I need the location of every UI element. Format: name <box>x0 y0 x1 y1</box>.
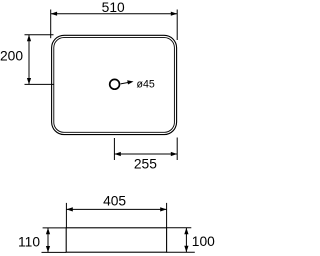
dimension line 200 <box>28 35 30 85</box>
svg-text:510: 510 <box>102 0 125 15</box>
extension line 110 bottom <box>42 251 67 253</box>
svg-text:255: 255 <box>134 156 157 171</box>
dimension line 100 <box>185 228 187 252</box>
drain hole circle <box>110 79 120 89</box>
svg-text:200: 200 <box>0 49 23 64</box>
extension line 110 top <box>43 227 67 229</box>
extension line 100 top <box>167 227 192 229</box>
arrowhead 510 left <box>51 12 57 16</box>
svg-text:ø45: ø45 <box>137 79 155 91</box>
extension line 100 bottom <box>167 251 195 253</box>
arrowhead 100 top <box>184 228 188 234</box>
arrowhead 510 right <box>171 12 177 16</box>
arrowhead 200 top <box>27 35 31 41</box>
extension line 200 bottom <box>25 83 55 85</box>
arrowhead 255 right <box>171 152 177 156</box>
arrowhead 200 bottom <box>27 78 31 84</box>
extension line 510 left <box>50 10 52 39</box>
drain leader arrowhead <box>127 80 133 84</box>
arrowhead 405 right <box>160 207 166 211</box>
basin outer outline (top view) <box>52 35 177 134</box>
arrowhead 110 bottom <box>46 246 50 252</box>
extension line 200 top <box>25 34 54 36</box>
basin body (side view) <box>66 228 166 252</box>
extension line 255 right <box>176 138 178 161</box>
dimension line 255 <box>114 153 177 155</box>
arrowhead 100 bottom <box>184 246 188 252</box>
arrowhead 405 left <box>66 207 72 211</box>
extension line 510 right <box>176 10 178 41</box>
arrowhead 110 top <box>46 228 50 234</box>
arrowhead 255 left <box>114 152 120 156</box>
svg-text:405: 405 <box>103 194 126 209</box>
basin inner outline (top view) <box>54 38 175 133</box>
extension line 405 left <box>65 203 67 228</box>
extension line 255 left <box>113 138 115 160</box>
svg-text:100: 100 <box>192 234 215 249</box>
svg-text:110: 110 <box>18 234 40 249</box>
dimension line 405 <box>66 208 166 210</box>
dimension line 110 <box>47 228 49 253</box>
extension line 405 right <box>166 203 168 228</box>
dimension line 510 <box>51 13 178 15</box>
drain leader arrow line <box>121 82 129 84</box>
